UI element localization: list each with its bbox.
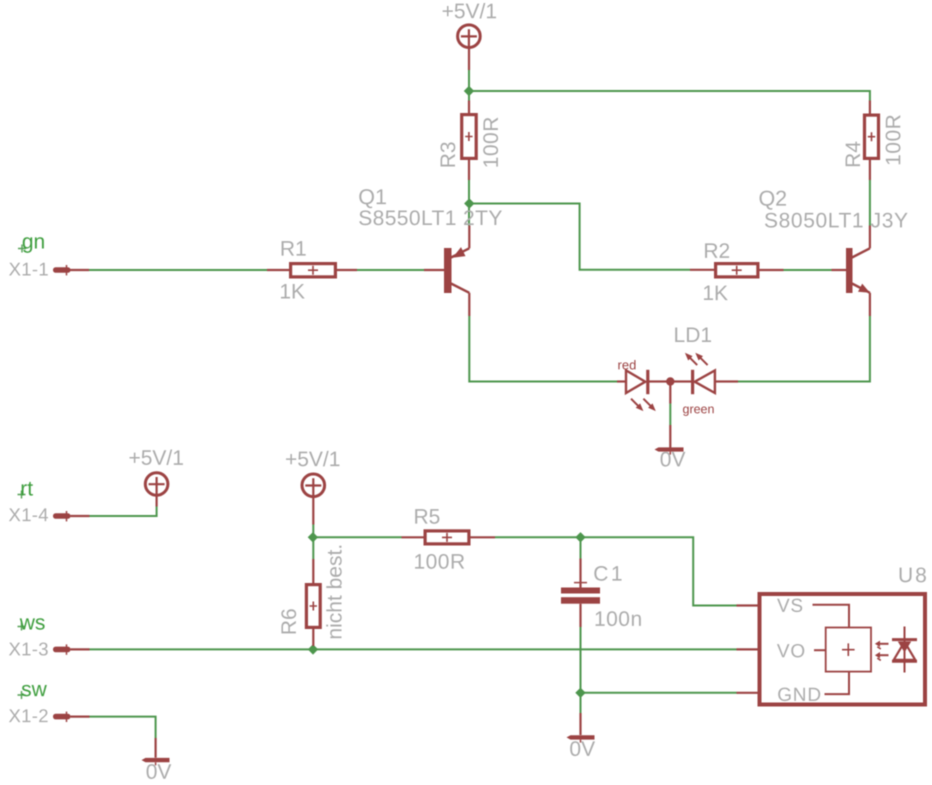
svg-text:Q1: Q1 [358, 185, 387, 209]
svg-text:S8550LT1 2TY: S8550LT1 2TY [358, 207, 503, 230]
svg-text:R2: R2 [703, 240, 730, 263]
svg-text:R6: R6 [278, 608, 301, 635]
svg-text:+5V/1: +5V/1 [285, 448, 340, 471]
svg-text:100R: 100R [480, 116, 503, 168]
svg-text:S8050LT1 J3Y: S8050LT1 J3Y [764, 209, 909, 232]
svg-text:VS: VS [777, 596, 804, 617]
svg-text:X1-1: X1-1 [9, 258, 49, 279]
svg-text:0V: 0V [660, 448, 686, 471]
svg-text:R3: R3 [437, 141, 460, 168]
svg-text:0V: 0V [146, 761, 172, 784]
svg-text:100R: 100R [413, 551, 465, 574]
svg-text:100n: 100n [594, 608, 643, 631]
svg-text:R1: R1 [280, 238, 307, 261]
svg-text:green: green [682, 402, 714, 416]
svg-text:red: red [618, 357, 637, 372]
svg-text:0V: 0V [569, 738, 595, 761]
svg-text:X1-3: X1-3 [9, 638, 49, 659]
svg-text:sw: sw [21, 678, 48, 701]
svg-text:nicht best.: nicht best. [324, 544, 347, 640]
svg-text:X1-2: X1-2 [9, 705, 49, 726]
svg-text:gn: gn [22, 230, 45, 253]
svg-text:1K: 1K [279, 280, 305, 303]
svg-text:+5V/1: +5V/1 [442, 0, 497, 23]
svg-text:100R: 100R [882, 114, 905, 166]
svg-text:R4: R4 [842, 141, 865, 168]
svg-text:GND: GND [777, 685, 822, 706]
svg-text:rt: rt [20, 477, 33, 500]
svg-text:X1-4: X1-4 [9, 504, 49, 525]
svg-text:U8: U8 [898, 564, 929, 587]
svg-text:VO: VO [777, 641, 806, 662]
svg-text:1K: 1K [702, 282, 728, 305]
svg-text:+5V/1: +5V/1 [128, 447, 183, 470]
svg-text:ws: ws [19, 611, 46, 634]
svg-text:Q2: Q2 [758, 187, 787, 211]
svg-text:R5: R5 [413, 506, 440, 529]
svg-text:LD1: LD1 [674, 324, 713, 347]
svg-text:C1: C1 [593, 563, 625, 586]
